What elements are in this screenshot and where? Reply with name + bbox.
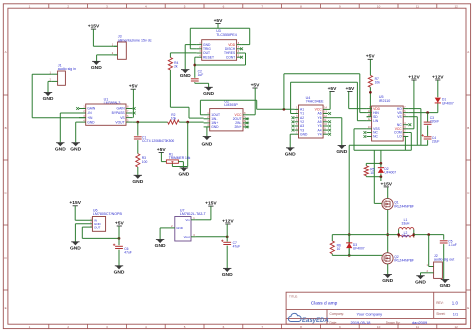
svg-text:GAIN: GAIN xyxy=(117,107,126,111)
svg-text:LO: LO xyxy=(397,135,402,139)
svg-text:LM393P: LM393P xyxy=(224,103,238,107)
svg-text:+5V: +5V xyxy=(345,86,355,92)
svg-text:+12V: +12V xyxy=(432,74,444,80)
svg-text:22uF: 22uF xyxy=(432,139,440,143)
svg-text:10: 10 xyxy=(337,247,341,251)
svg-text:GND: GND xyxy=(43,96,54,102)
svg-text:UF4007: UF4007 xyxy=(442,101,454,105)
svg-text:LM7812L-TA3-T: LM7812L-TA3-T xyxy=(180,212,207,216)
svg-text:10k: 10k xyxy=(375,81,381,85)
svg-text:IR2110: IR2110 xyxy=(379,99,390,103)
svg-text:TITLE:: TITLE: xyxy=(289,294,298,298)
svg-text:Sheet:: Sheet: xyxy=(436,312,445,316)
svg-text:CONT: CONT xyxy=(226,55,235,59)
svg-text:audio sig out: audio sig out xyxy=(434,258,454,262)
svg-text:2k: 2k xyxy=(174,64,178,68)
svg-text:Drawn By:: Drawn By: xyxy=(386,321,401,325)
svg-text:IRLZ44NPBF: IRLZ44NPBF xyxy=(394,204,414,208)
svg-text:GND: GND xyxy=(91,65,102,71)
svg-text:Class d amp: Class d amp xyxy=(311,301,338,307)
svg-text:UF4007: UF4007 xyxy=(353,246,365,250)
svg-text:GND: GND xyxy=(285,151,296,157)
svg-text:2019-05-18: 2019-05-18 xyxy=(351,320,371,325)
svg-text:VOUT: VOUT xyxy=(115,120,124,124)
svg-text:GAIN: GAIN xyxy=(87,107,96,111)
svg-text:1uF: 1uF xyxy=(198,73,204,77)
svg-text:GND: GND xyxy=(222,272,233,278)
svg-text:GND: GND xyxy=(336,149,347,155)
svg-text:+5V: +5V xyxy=(328,86,338,92)
svg-text:10: 10 xyxy=(370,171,374,175)
svg-text:GND: GND xyxy=(201,141,212,147)
svg-text:alimentazione 15v dc: alimentazione 15v dc xyxy=(118,38,152,42)
svg-text:dao2009: dao2009 xyxy=(412,320,427,325)
svg-text:EasyEDA: EasyEDA xyxy=(302,318,329,324)
svg-text:GND: GND xyxy=(300,132,308,136)
svg-text:+15V: +15V xyxy=(381,181,393,187)
svg-text:A: A xyxy=(5,50,7,54)
svg-text:LM7805CT/NOPB: LM7805CT/NOPB xyxy=(93,212,123,216)
svg-text:10k: 10k xyxy=(171,116,177,120)
svg-text:GND: GND xyxy=(87,120,95,124)
svg-text:+5V: +5V xyxy=(115,220,125,226)
svg-text:10: 10 xyxy=(377,325,381,329)
svg-text:74HC04EE: 74HC04EE xyxy=(306,100,325,104)
svg-text:47uF: 47uF xyxy=(233,245,241,249)
svg-text:LIN: LIN xyxy=(373,119,379,123)
svg-text:GND: GND xyxy=(180,73,191,79)
svg-text:GND: GND xyxy=(55,146,66,152)
svg-text:IRLZ44NPBF: IRLZ44NPBF xyxy=(394,259,414,263)
svg-text:11: 11 xyxy=(416,4,419,8)
svg-text:GND: GND xyxy=(440,283,451,289)
svg-text:+5V: +5V xyxy=(251,82,261,88)
svg-text:GND: GND xyxy=(70,245,81,251)
svg-text:B: B xyxy=(5,126,7,130)
svg-text:100: 100 xyxy=(142,160,148,164)
svg-text:TLC555IPE4: TLC555IPE4 xyxy=(216,33,237,37)
svg-text:GND: GND xyxy=(178,172,189,178)
svg-text:+15V: +15V xyxy=(88,24,100,30)
svg-text:-IN: -IN xyxy=(87,111,92,115)
svg-text:+5V: +5V xyxy=(129,84,139,90)
svg-text:12: 12 xyxy=(455,325,459,329)
svg-text:47uF: 47uF xyxy=(124,250,132,254)
svg-text:GND: GND xyxy=(155,243,166,249)
svg-text:Your Company: Your Company xyxy=(357,312,383,317)
svg-text:11: 11 xyxy=(416,325,419,329)
svg-text:33uH: 33uH xyxy=(402,222,411,226)
svg-text:+5V: +5V xyxy=(214,18,224,24)
svg-text:+12V: +12V xyxy=(222,218,234,224)
svg-text:Vout: Vout xyxy=(184,235,190,239)
svg-text:12: 12 xyxy=(455,4,459,8)
svg-text:Date:: Date: xyxy=(330,321,338,325)
svg-text:GND: GND xyxy=(114,269,125,275)
svg-text:CCT4 1206B473K500: CCT4 1206B473K500 xyxy=(142,139,174,143)
svg-text:1.1uF: 1.1uF xyxy=(448,243,456,247)
svg-text:10: 10 xyxy=(377,4,381,8)
svg-text:Vin: Vin xyxy=(185,218,190,222)
svg-text:OUT: OUT xyxy=(94,225,101,229)
svg-text:E: E xyxy=(467,306,469,310)
svg-text:+IN: +IN xyxy=(87,116,93,120)
svg-text:+12V: +12V xyxy=(408,74,420,80)
svg-text:GND: GND xyxy=(176,226,184,230)
svg-text:220nF: 220nF xyxy=(430,119,439,123)
svg-text:Company:: Company: xyxy=(330,312,345,316)
svg-text:+15V: +15V xyxy=(205,201,217,207)
svg-text:NC: NC xyxy=(373,135,378,139)
svg-text:GND: GND xyxy=(203,91,214,97)
svg-text:GND: GND xyxy=(70,146,81,152)
svg-text:TRIMMER 10k: TRIMMER 10k xyxy=(169,156,191,160)
svg-text:UF4007: UF4007 xyxy=(384,171,396,175)
svg-text:GND: GND xyxy=(211,125,219,129)
svg-text:33uH: 33uH xyxy=(402,234,411,238)
svg-text:2IN+: 2IN+ xyxy=(234,125,241,129)
svg-text:REV:: REV: xyxy=(436,301,443,305)
svg-text:1/1: 1/1 xyxy=(453,312,458,317)
svg-text:GND: GND xyxy=(382,278,393,284)
svg-text:E: E xyxy=(5,306,7,310)
svg-text:audio sig in: audio sig in xyxy=(58,67,76,71)
svg-text:Y4: Y4 xyxy=(318,132,322,136)
svg-text:B: B xyxy=(467,126,469,130)
svg-text:GND: GND xyxy=(415,279,426,285)
svg-text:+5V: +5V xyxy=(157,147,167,153)
svg-text:RESET: RESET xyxy=(203,55,214,59)
svg-text:A: A xyxy=(467,50,469,54)
svg-text:+15V: +15V xyxy=(69,200,81,206)
svg-text:1.0: 1.0 xyxy=(452,301,459,306)
svg-text:GND: GND xyxy=(132,179,143,185)
svg-text:BYPASS: BYPASS xyxy=(112,111,126,115)
svg-text:+5V: +5V xyxy=(366,54,376,60)
